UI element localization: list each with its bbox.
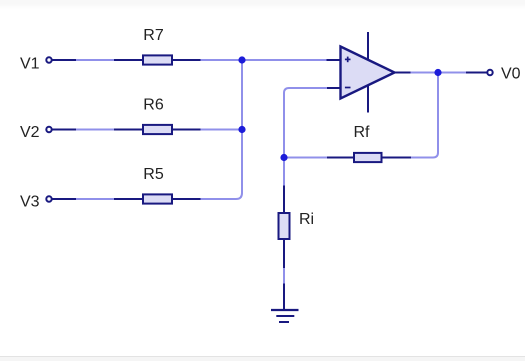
resistor Rf	[327, 153, 412, 162]
wire node FB down to Ri	[283, 158, 285, 187]
svg-text:V0: V0	[501, 66, 521, 83]
wire R5 up to node A (vertical bus)	[201, 60, 243, 199]
svg-text:R6: R6	[143, 97, 164, 114]
terminal V1	[46, 57, 77, 62]
wire V3 to R5	[76, 198, 115, 200]
resistor R5	[114, 194, 201, 203]
wire Rf to node FB	[284, 157, 327, 159]
wire op-amp output to terminal V0	[411, 72, 467, 74]
svg-text:V2: V2	[20, 124, 40, 141]
terminal V2	[46, 127, 77, 132]
wire node OUT down to Rf	[411, 73, 439, 158]
wire V2 to R6	[76, 129, 115, 131]
wire R6 to node B	[201, 129, 243, 131]
ground	[271, 284, 299, 323]
wire Ri to ground	[283, 268, 285, 284]
terminal V0	[466, 70, 493, 75]
svg-text:Ri: Ri	[299, 211, 314, 228]
svg-text:R5: R5	[143, 166, 164, 183]
junction node B	[238, 126, 245, 133]
wire node FB up to op-amp inverting input	[284, 88, 327, 158]
terminal V3	[46, 196, 77, 201]
svg-text:V3: V3	[20, 194, 40, 211]
svg-text:V1: V1	[20, 56, 40, 73]
wire node A to op-amp noninverting input	[242, 59, 328, 61]
op-amp negative supply pin	[367, 85, 369, 113]
resistor R6	[114, 125, 201, 134]
op-amp U1	[327, 47, 411, 99]
svg-text:Rf: Rf	[354, 124, 371, 141]
wire R7 to node A	[201, 59, 243, 61]
junction node OUT	[434, 69, 441, 76]
svg-text:R7: R7	[143, 27, 164, 44]
junction node A	[238, 56, 245, 63]
wire V1 to R7	[76, 59, 115, 61]
junction node FB	[280, 154, 287, 161]
op-amp positive supply pin	[367, 32, 369, 61]
resistor R7	[114, 55, 201, 64]
resistor Ri	[279, 186, 290, 269]
